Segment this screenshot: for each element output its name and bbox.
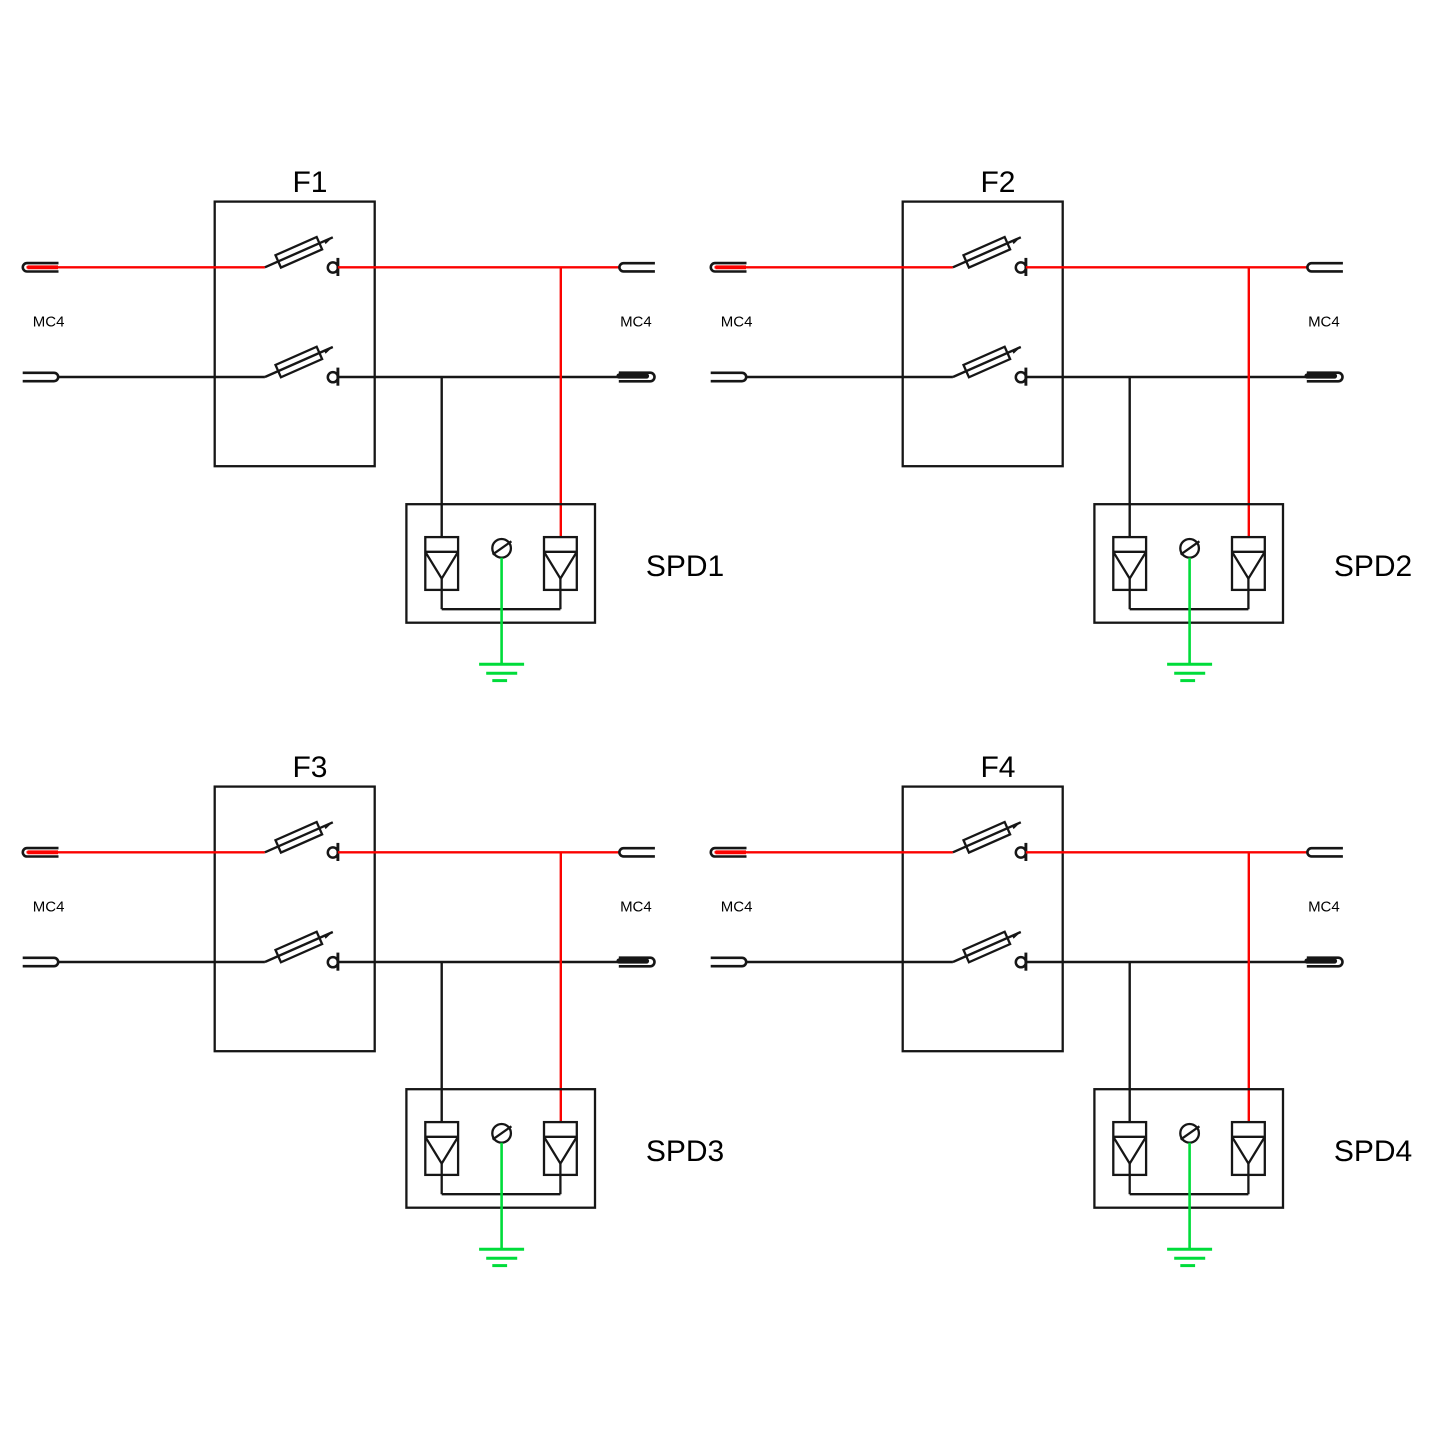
- MC4 connector left negative (male): [711, 373, 747, 381]
- svg-text:MC4: MC4: [620, 899, 652, 916]
- MC4 connector right negative (male, mated): [619, 958, 655, 967]
- MC4 connector right positive (female): [619, 848, 655, 856]
- svg-text:MC4: MC4: [620, 314, 652, 331]
- SPD4 box: [1094, 1089, 1283, 1208]
- wire SPD tap negative (black): [441, 962, 443, 1122]
- svg-text:MC4: MC4: [721, 899, 753, 916]
- SPD1 ground terminal screw: [492, 539, 511, 558]
- varistor module SPD3 right: [544, 1122, 577, 1194]
- varistor module SPD1 right: [544, 537, 577, 609]
- SPD3 ground terminal screw: [492, 1124, 511, 1143]
- fuse F1a (blade, body, tip): [265, 237, 333, 268]
- wire SPD tap negative (black): [1128, 377, 1130, 537]
- MC4 connector left positive (female): [23, 848, 59, 856]
- ground symbol: [479, 664, 524, 680]
- fuse F2b (blade, body, tip): [953, 347, 1021, 378]
- wire negative out (black): [338, 961, 619, 963]
- fuse F1b fixed contact: [328, 372, 338, 382]
- MC4 connector left negative (male): [23, 373, 59, 381]
- MC4 connector right positive (female): [1307, 263, 1342, 271]
- ground symbol: [1167, 1249, 1212, 1265]
- fuse F2b fixed contact: [1016, 372, 1026, 382]
- MC4 connector left positive (female): [23, 263, 59, 271]
- wire negative in (black): [58, 961, 265, 963]
- MC4 connector right negative (male, mated): [1307, 373, 1343, 382]
- MC4 connector right negative (male, mated): [619, 373, 655, 382]
- svg-text:MC4: MC4: [721, 314, 753, 331]
- svg-text:MC4: MC4: [1308, 899, 1340, 916]
- ground symbol: [1167, 664, 1212, 680]
- SPD3 box: [406, 1089, 595, 1208]
- varistor module SPD4 right: [1232, 1122, 1265, 1194]
- fuse F2a fixed contact: [1016, 262, 1026, 272]
- wire negative out (black): [1026, 961, 1307, 963]
- wire positive out (red): [338, 266, 619, 268]
- wire SPD3 earth (green): [500, 1143, 503, 1250]
- wire SPD3 internal bus: [442, 1193, 561, 1195]
- varistor module SPD2 right: [1232, 537, 1265, 609]
- wire positive in (red): [27, 851, 265, 853]
- wire SPD tap positive (red): [560, 852, 562, 1122]
- wire negative in (black): [746, 376, 953, 378]
- fuse F4a (blade, body, tip): [953, 822, 1021, 853]
- svg-text:MC4: MC4: [33, 899, 65, 916]
- wire positive out (red): [1026, 266, 1307, 268]
- fuse holder box F3: [215, 787, 375, 1052]
- MC4 connector right negative (male, mated): [1307, 958, 1343, 967]
- fuse holder box F4: [903, 787, 1063, 1052]
- wire SPD4 earth (green): [1188, 1143, 1191, 1250]
- svg-text:F1: F1: [292, 166, 327, 199]
- varistor module SPD3 left: [425, 1122, 458, 1194]
- fuse holder box F1: [215, 202, 375, 467]
- wire SPD1 internal bus: [442, 608, 561, 610]
- MC4 connector left positive (female): [711, 263, 747, 271]
- wire negative out (black): [338, 376, 619, 378]
- MC4 connector right positive (female): [619, 263, 654, 271]
- varistor module SPD1 left: [425, 537, 458, 609]
- fuse F3b fixed contact: [328, 957, 338, 967]
- svg-text:F3: F3: [292, 751, 327, 784]
- fuse F4b fixed contact: [1016, 957, 1026, 967]
- svg-text:F4: F4: [980, 751, 1015, 784]
- svg-text:SPD2: SPD2: [1334, 550, 1412, 583]
- svg-text:MC4: MC4: [1308, 314, 1340, 331]
- svg-text:MC4: MC4: [33, 314, 65, 331]
- svg-text:SPD3: SPD3: [646, 1135, 724, 1168]
- MC4 connector right positive (female): [1307, 848, 1343, 856]
- wire SPD tap positive (red): [1248, 852, 1250, 1122]
- MC4 connector left positive (female): [711, 848, 747, 856]
- wire SPD tap negative (black): [441, 377, 443, 537]
- fuse F4a fixed contact: [1016, 847, 1026, 857]
- SPD4 ground terminal screw: [1180, 1124, 1199, 1143]
- wire positive out (red): [338, 851, 619, 853]
- svg-text:SPD4: SPD4: [1334, 1135, 1412, 1168]
- varistor module SPD2 left: [1113, 537, 1146, 609]
- wire SPD2 internal bus: [1130, 608, 1249, 610]
- svg-text:F2: F2: [980, 166, 1015, 199]
- svg-text:SPD1: SPD1: [646, 550, 724, 583]
- wire positive in (red): [715, 851, 953, 853]
- wire SPD tap positive (red): [1248, 267, 1250, 537]
- fuse F1a fixed contact: [328, 262, 338, 272]
- ground symbol: [479, 1249, 524, 1265]
- fuse F3a (blade, body, tip): [265, 822, 333, 853]
- fuse holder box F2: [903, 202, 1063, 467]
- wire positive in (red): [27, 266, 265, 268]
- MC4 connector left negative (male): [711, 958, 747, 966]
- wire negative out (black): [1026, 376, 1307, 378]
- varistor module SPD4 left: [1113, 1122, 1146, 1194]
- fuse F1b (blade, body, tip): [265, 347, 333, 378]
- fuse F3b (blade, body, tip): [265, 932, 333, 963]
- wire SPD tap negative (black): [1128, 962, 1130, 1122]
- wire SPD tap positive (red): [560, 267, 562, 537]
- wire SPD1 earth (green): [500, 558, 503, 665]
- wire positive in (red): [715, 266, 953, 268]
- wire SPD2 earth (green): [1188, 558, 1191, 665]
- wire negative in (black): [58, 376, 265, 378]
- wire positive out (red): [1026, 851, 1307, 853]
- fuse F2a (blade, body, tip): [953, 237, 1021, 268]
- SPD2 ground terminal screw: [1180, 539, 1199, 558]
- MC4 connector left negative (male): [23, 958, 59, 966]
- fuse F4b (blade, body, tip): [953, 932, 1021, 963]
- wire SPD4 internal bus: [1130, 1193, 1249, 1195]
- SPD1 box: [406, 504, 595, 623]
- wire negative in (black): [746, 961, 953, 963]
- fuse F3a fixed contact: [328, 847, 338, 857]
- SPD2 box: [1094, 504, 1283, 623]
